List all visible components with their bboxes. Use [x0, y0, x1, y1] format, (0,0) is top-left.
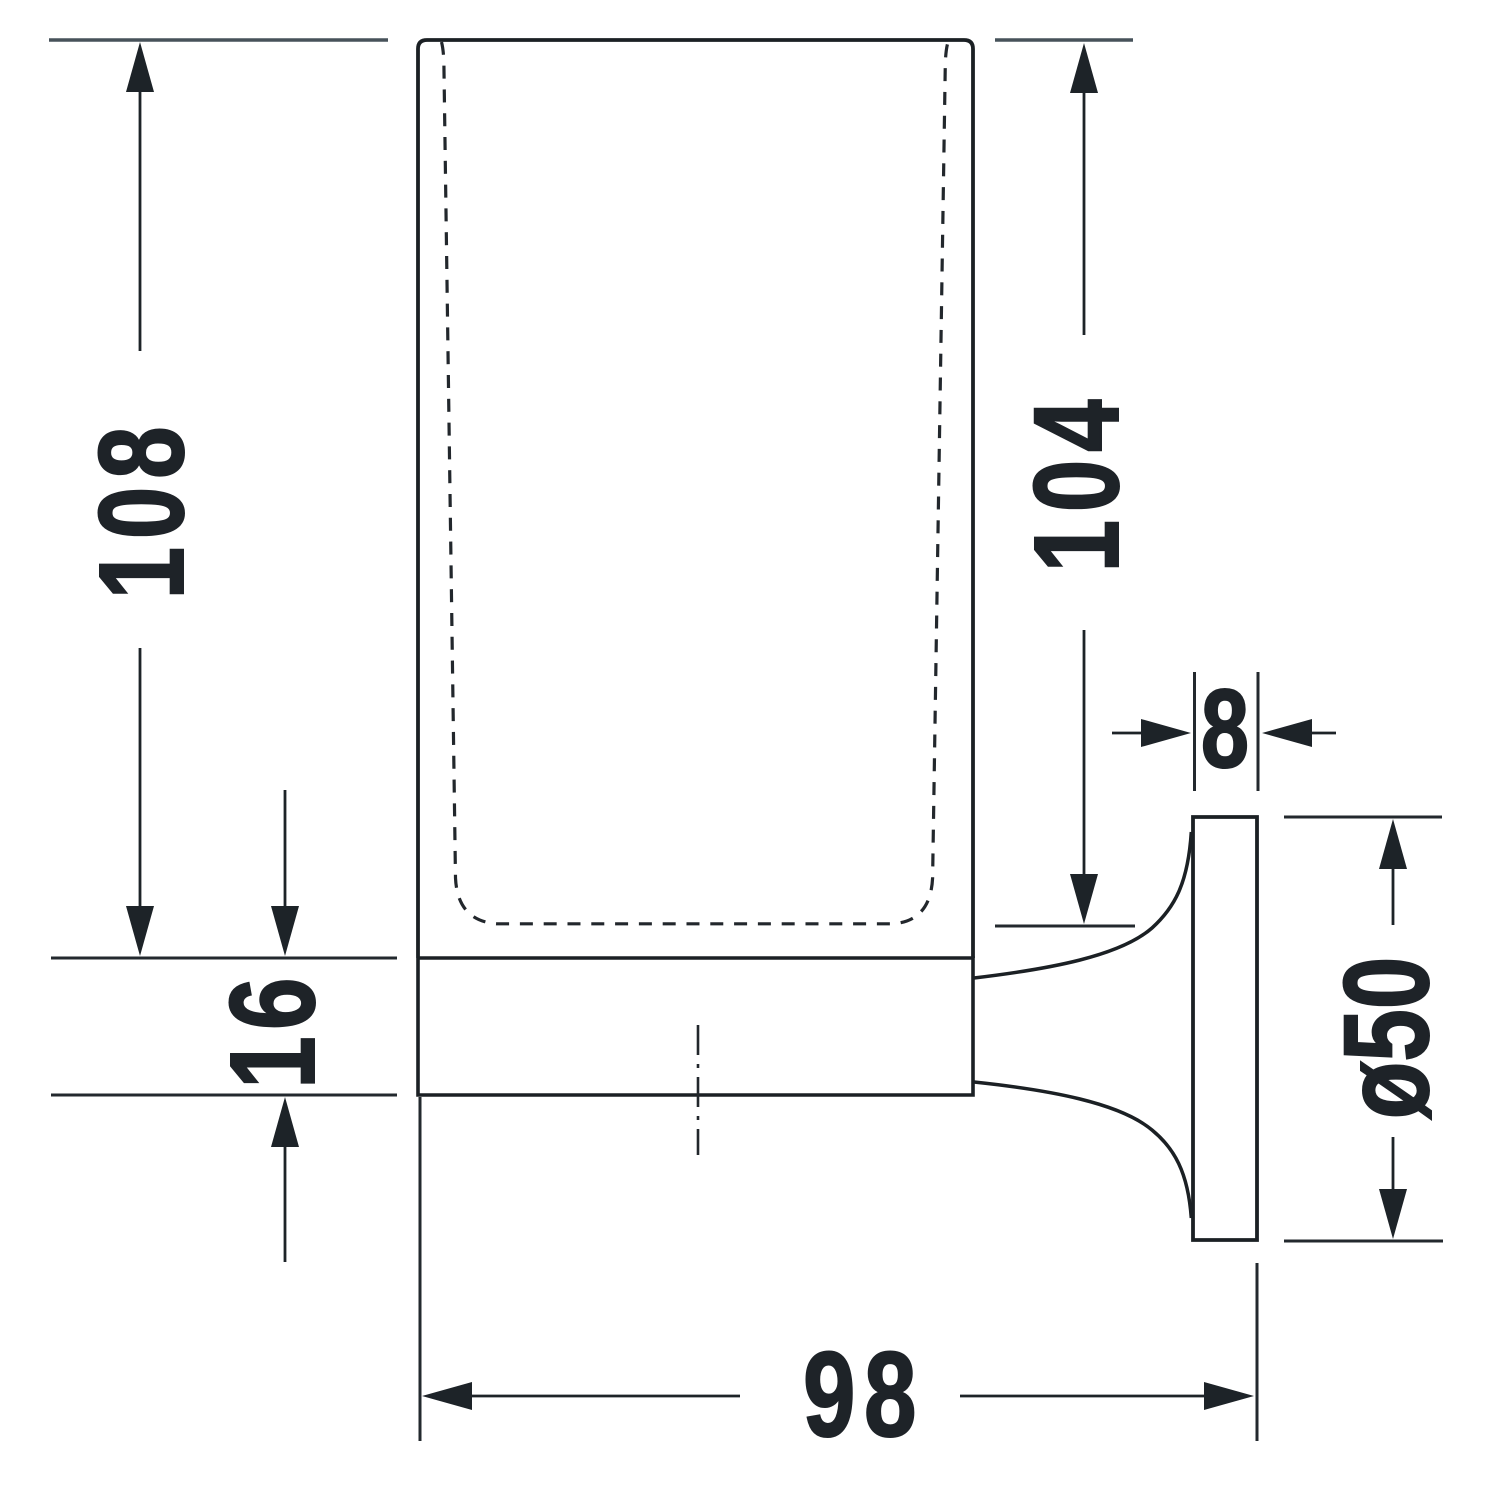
extension line top-left (108 top): [49, 38, 388, 42]
extension line 98 left (x=420): [419, 1097, 422, 1441]
glass inner wall dashed: [442, 42, 949, 924]
svg-text:ø50: ø50: [1319, 957, 1454, 1120]
svg-text:108: 108: [74, 419, 209, 600]
extension line 98 right (x=1257): [1256, 1263, 1259, 1441]
extension lines for 8 (plate thickness): [1193, 672, 1196, 791]
dimension 108 line + arrows: [126, 42, 154, 956]
svg-text:16: 16: [205, 971, 340, 1088]
extension line 108/16 shared (y=958): [51, 957, 397, 960]
extension line ø50 top (y=817): [1284, 816, 1442, 819]
svg-text:98: 98: [803, 1327, 925, 1462]
dimension 98 line + arrows: [422, 1382, 1254, 1410]
extension line ø50 bottom (y=1241): [1284, 1240, 1443, 1243]
svg-text:104: 104: [1009, 392, 1144, 573]
bracket lower curve: [974, 1082, 1191, 1218]
glass outline: [418, 40, 973, 958]
svg-text:8: 8: [1201, 668, 1249, 792]
dimension 16 arrows: [271, 790, 299, 1262]
holder band: [418, 958, 973, 1095]
holder centerline mark: [697, 1025, 700, 1155]
bracket upper curve: [974, 832, 1191, 978]
extension line 104 bottom (y=926): [995, 925, 1135, 928]
extension line 104 top (y=40): [995, 38, 1133, 42]
dimension 8 arrows: [1112, 719, 1336, 747]
extension line 16 bottom (y=1095): [51, 1094, 397, 1097]
wall plate: [1193, 817, 1257, 1240]
dimension ø50 line + arrows: [1379, 819, 1407, 1239]
dimension 104 line + arrows: [1070, 43, 1098, 924]
